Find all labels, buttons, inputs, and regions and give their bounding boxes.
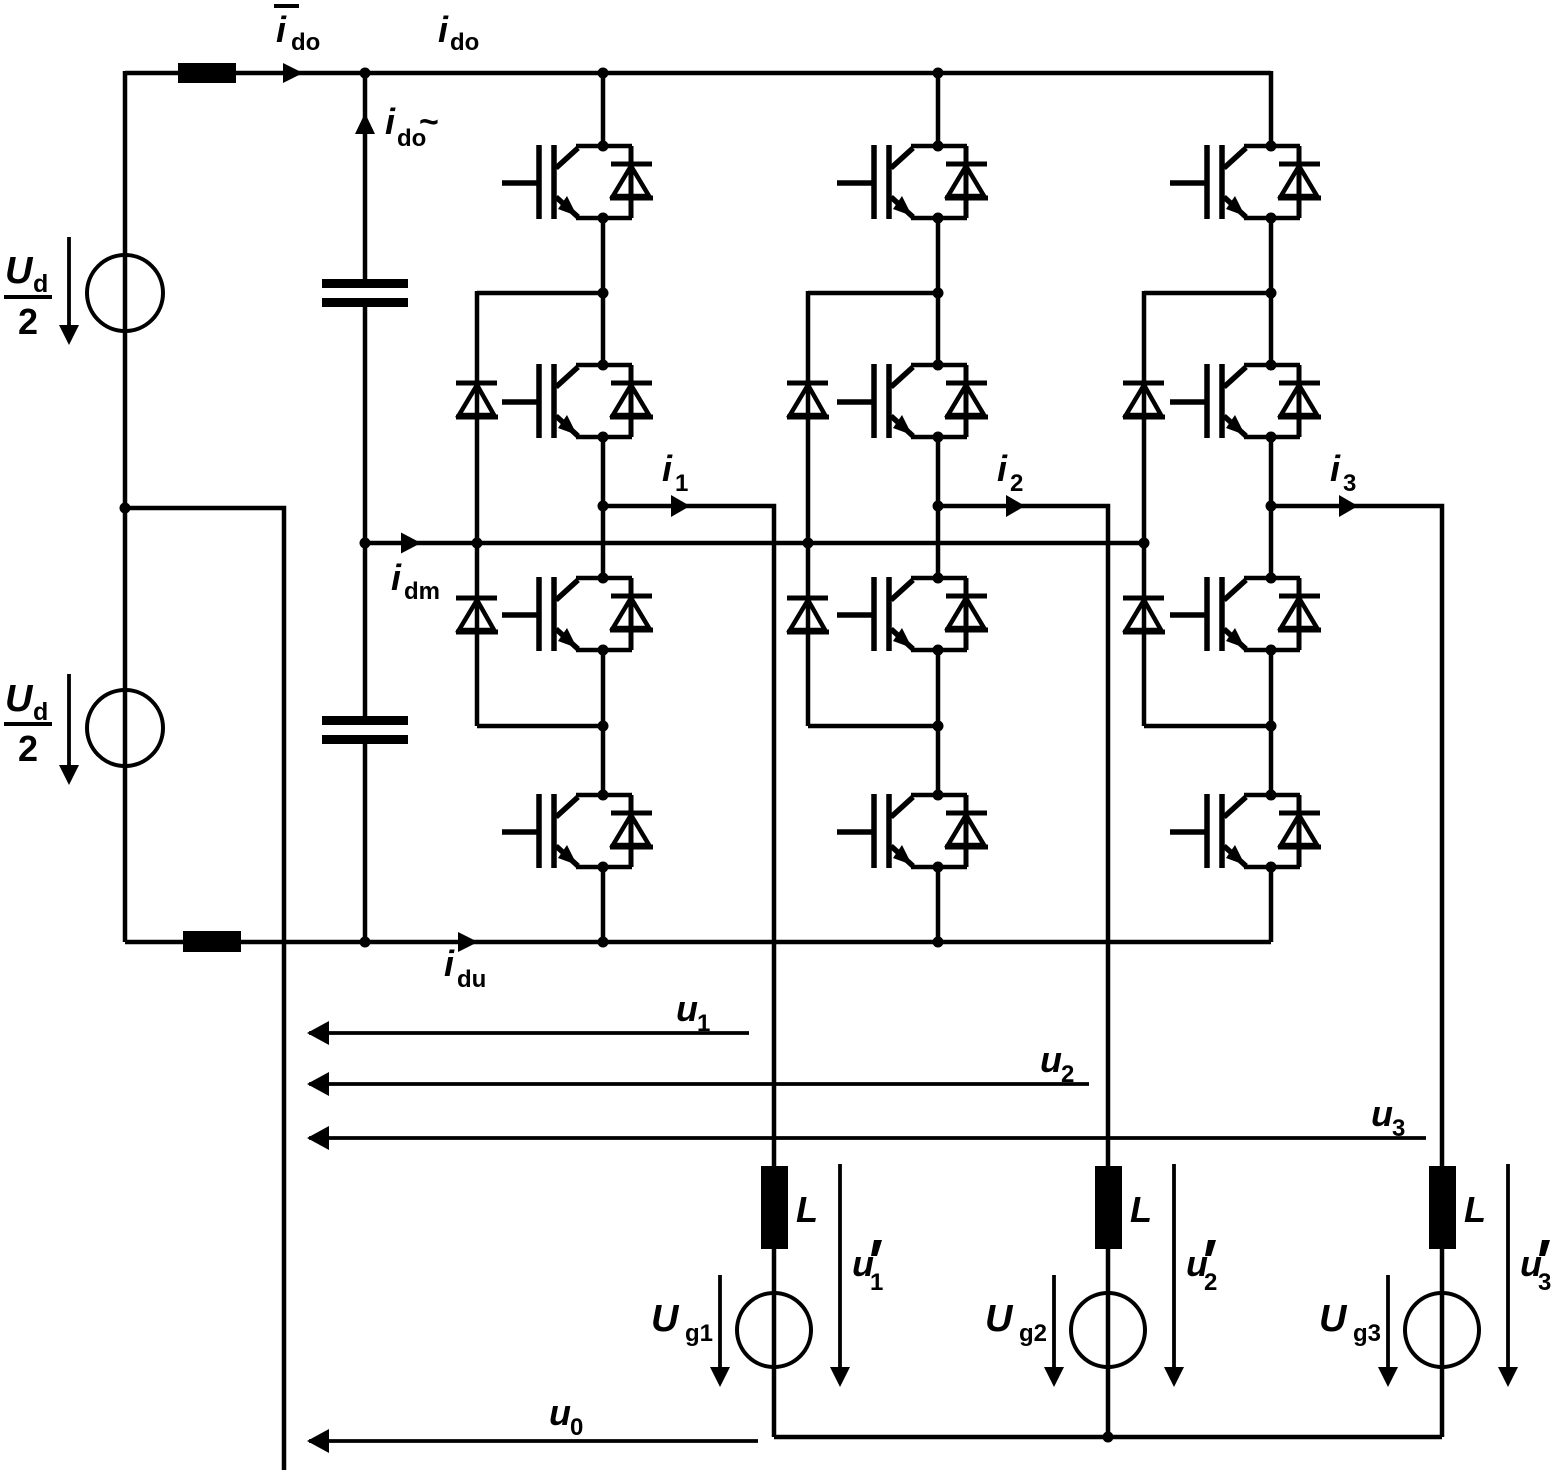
label i_du <box>444 943 486 993</box>
arrow i_3 <box>1339 495 1358 517</box>
label Ud/2 lower <box>4 678 52 769</box>
arrow U_g1 <box>710 1275 730 1387</box>
svg-text:1: 1 <box>697 1010 710 1037</box>
node T4 collector <box>598 790 609 801</box>
transistor T2 IGBT upper-middle (phase 1) <box>502 364 653 438</box>
transistor T4 IGBT bottom (phase 1) <box>502 794 653 868</box>
transistor T10 IGBT upper-middle (phase 3) <box>1170 364 1321 438</box>
arrow u_3 voltage <box>307 1126 1426 1150</box>
diode D25 clamp upper (phase 2) <box>787 383 829 417</box>
svg-text:du: du <box>457 966 486 993</box>
svg-text:g1: g1 <box>685 1320 713 1347</box>
label u_0 <box>549 1392 583 1441</box>
node clamp top junction phase 3 <box>1266 288 1277 299</box>
svg-text:U: U <box>985 1298 1014 1340</box>
voltage source U_g2 grid (phase 2) <box>1071 1293 1145 1367</box>
label L phase 2 <box>1130 1189 1152 1230</box>
svg-text:do: do <box>291 29 320 56</box>
svg-text:0: 0 <box>570 1414 583 1441</box>
svg-text:u: u <box>1371 1093 1393 1134</box>
label L phase 3 <box>1464 1189 1486 1230</box>
node clamp bottom junction phase 3 <box>1266 721 1277 732</box>
arrow i_2 <box>1006 495 1025 517</box>
wire T9 emitter to clamp junction <box>1269 218 1274 365</box>
node T4 emitter <box>598 862 609 873</box>
arrow Ud/2 upper <box>59 237 79 345</box>
arrow u'_3 <box>1498 1164 1518 1387</box>
node phase 1 at top rail <box>598 68 609 79</box>
svg-text:2: 2 <box>1061 1061 1074 1088</box>
label u'_3 <box>1520 1240 1551 1296</box>
wire T8 emitter to bottom rail <box>936 867 941 942</box>
wire clamp vertical phase 3 <box>1142 291 1147 726</box>
wire clamp bottom link phase 3 <box>1144 724 1271 729</box>
label u_2 <box>1040 1039 1074 1088</box>
label u_1 <box>676 988 710 1037</box>
svg-text:g2: g2 <box>1019 1320 1047 1347</box>
wire bottom DC rail (-) <box>125 940 1271 945</box>
svg-text:1: 1 <box>675 470 688 497</box>
label i_dm <box>391 557 440 605</box>
arrow i_du on bottom rail <box>458 932 478 952</box>
arrow u_1 voltage <box>307 1021 749 1045</box>
wire phase 2 from top rail <box>936 73 941 146</box>
svg-text:2: 2 <box>18 728 38 769</box>
node T6 collector <box>933 360 944 371</box>
node capacitor midpoint at i_dm rail <box>360 538 371 549</box>
node T10 collector <box>1266 360 1277 371</box>
wire capacitor branch upper <box>363 73 368 279</box>
node clamp at i_dm rail phase 2 <box>803 538 814 549</box>
transistor T12 IGBT bottom (phase 3) <box>1170 794 1321 868</box>
wire T6 emitter to output node <box>936 437 941 578</box>
svg-text:U: U <box>651 1298 680 1340</box>
wire output phase 1 to inductor <box>603 506 774 1166</box>
label U_g2 <box>985 1298 1047 1347</box>
wire clamp bottom link phase 2 <box>808 724 938 729</box>
node T1 collector <box>598 141 609 152</box>
wire T3 emitter to clamp bottom <box>601 650 606 795</box>
node output phase 3 <box>1266 501 1277 512</box>
label Ud/2 upper <box>4 250 52 342</box>
svg-text:i: i <box>444 943 455 984</box>
node clamp at i_dm rail phase 3 <box>1139 538 1150 549</box>
node T5 emitter <box>933 213 944 224</box>
node phase 2 at top rail <box>933 68 944 79</box>
svg-text:2: 2 <box>1010 470 1023 497</box>
wire inductor to grid source phase 3 <box>1440 1249 1445 1437</box>
wire i_dm neutral rail <box>365 541 1144 546</box>
node T3 emitter <box>598 645 609 656</box>
inductor L phase 3 <box>1429 1166 1456 1249</box>
svg-text:i: i <box>438 9 449 50</box>
transistor T3 IGBT lower-middle (phase 1) <box>502 577 653 651</box>
node T6 emitter <box>933 432 944 443</box>
label i_3 <box>1330 448 1356 497</box>
arrow i_do~ up on capacitor branch <box>355 113 375 134</box>
wire T5 emitter to clamp junction <box>936 218 941 365</box>
inductor L phase 2 <box>1095 1166 1122 1249</box>
node phase 2 at bottom rail <box>933 937 944 948</box>
wire clamp top link phase 3 <box>1144 291 1271 296</box>
svg-text:u: u <box>549 1392 571 1433</box>
svg-text:i: i <box>276 9 287 50</box>
svg-text:~: ~ <box>419 103 439 141</box>
node T10 emitter <box>1266 432 1277 443</box>
svg-text:do: do <box>450 29 479 56</box>
node T5 collector <box>933 141 944 152</box>
svg-text:i: i <box>385 101 396 142</box>
arrow i_1 <box>671 495 690 517</box>
arrow u'_1 <box>830 1164 850 1387</box>
wire phase 1 from top rail <box>601 73 606 146</box>
svg-text:L: L <box>1130 1189 1152 1230</box>
wire neutral branch from source midpoint <box>125 508 284 1470</box>
wire output phase 2 to inductor <box>938 506 1108 1166</box>
diode D16 clamp lower (phase 1) <box>456 598 498 632</box>
inductor L phase 1 <box>761 1166 788 1249</box>
voltage source Ud/2 lower <box>87 690 163 766</box>
label u'_2 <box>1186 1240 1217 1296</box>
node output phase 1 <box>598 501 609 512</box>
arrow U_g3 <box>1378 1275 1398 1387</box>
label U_g1 <box>651 1298 713 1347</box>
transistor T1 IGBT top (phase 1) <box>502 145 653 219</box>
label u_3 <box>1371 1093 1405 1142</box>
wire T1 emitter to clamp junction <box>601 218 606 365</box>
voltage source U_g1 grid (phase 1) <box>737 1293 811 1367</box>
svg-text:u: u <box>676 988 698 1029</box>
arrow i_do average on top rail <box>283 63 303 83</box>
wire T2 emitter to output node <box>601 437 606 578</box>
label i_do average (bar) <box>274 6 320 56</box>
label U_g3 <box>1319 1298 1381 1347</box>
diode D35 clamp upper (phase 3) <box>1123 383 1165 417</box>
svg-text:dm: dm <box>404 578 440 605</box>
arrow Ud/2 lower <box>59 674 79 785</box>
node source midpoint junction <box>120 503 131 514</box>
wire clamp vertical phase 2 <box>806 291 811 726</box>
svg-text:2: 2 <box>18 301 38 342</box>
svg-text:i: i <box>391 557 402 598</box>
wire inductor to grid source phase 2 <box>1106 1249 1111 1437</box>
label i_do~ <box>385 101 439 152</box>
node clamp bottom junction phase 1 <box>598 721 609 732</box>
node T11 collector <box>1266 573 1277 584</box>
svg-text:d: d <box>33 270 48 298</box>
label i_2 <box>997 448 1023 497</box>
node T8 emitter <box>933 862 944 873</box>
voltage source Ud/2 upper <box>87 255 163 331</box>
node T12 emitter <box>1266 862 1277 873</box>
diode D36 clamp lower (phase 3) <box>1123 598 1165 632</box>
node T9 emitter <box>1266 213 1277 224</box>
node clamp bottom junction phase 2 <box>933 721 944 732</box>
node clamp top junction phase 2 <box>933 288 944 299</box>
transistor T5 IGBT top (phase 2) <box>837 145 988 219</box>
wire inductor to grid source phase 1 <box>772 1249 777 1437</box>
node T1 emitter <box>598 213 609 224</box>
svg-text:2: 2 <box>1204 1269 1217 1296</box>
svg-text:L: L <box>1464 1189 1486 1230</box>
wire T12 emitter to bottom rail <box>1269 867 1274 942</box>
label i_1 <box>662 448 688 497</box>
wire T10 emitter to output node <box>1269 437 1274 578</box>
arrow u_0 voltage <box>307 1429 758 1453</box>
node clamp at i_dm rail phase 1 <box>472 538 483 549</box>
node output phase 2 <box>933 501 944 512</box>
wire clamp top link phase 1 <box>477 291 603 296</box>
node T11 emitter <box>1266 645 1277 656</box>
node T2 collector <box>598 360 609 371</box>
wire output phase 3 to inductor <box>1271 506 1442 1166</box>
svg-text:U: U <box>1319 1298 1348 1340</box>
wire clamp bottom link phase 1 <box>477 724 603 729</box>
label i_do <box>438 9 479 56</box>
arrow i_dm on neutral rail <box>401 533 421 554</box>
fuse F1 on top rail <box>178 63 236 83</box>
wire phase 3 from top rail corner <box>1269 71 1274 146</box>
svg-text:1: 1 <box>870 1269 883 1296</box>
transistor T6 IGBT upper-middle (phase 2) <box>837 364 988 438</box>
node clamp top junction phase 1 <box>598 288 609 299</box>
transistor T11 IGBT lower-middle (phase 3) <box>1170 577 1321 651</box>
svg-text:u: u <box>1040 1039 1062 1080</box>
svg-text:i: i <box>662 448 673 489</box>
diode D26 clamp lower (phase 2) <box>787 598 829 632</box>
wire capacitor branch middle <box>363 307 368 716</box>
wire T7 emitter to clamp bottom <box>936 650 941 795</box>
transistor T7 IGBT lower-middle (phase 2) <box>837 577 988 651</box>
arrow u_2 voltage <box>307 1072 1089 1096</box>
node capacitor branch at bottom rail <box>360 937 371 948</box>
svg-text:3: 3 <box>1392 1115 1405 1142</box>
node T12 collector <box>1266 790 1277 801</box>
wire grid star-point rail <box>774 1435 1442 1440</box>
node T3 collector <box>598 573 609 584</box>
svg-text:U: U <box>5 250 34 292</box>
voltage source U_g3 grid (phase 3) <box>1405 1293 1479 1367</box>
arrow u'_2 <box>1164 1164 1184 1387</box>
svg-text:U: U <box>5 678 34 720</box>
wire capacitor branch lower <box>363 744 368 942</box>
arrow U_g2 <box>1044 1275 1064 1387</box>
node T2 emitter <box>598 432 609 443</box>
svg-text:g3: g3 <box>1353 1320 1381 1347</box>
wire top DC rail (+) <box>125 71 1271 76</box>
node T7 collector <box>933 573 944 584</box>
transistor T8 IGBT bottom (phase 2) <box>837 794 988 868</box>
capacitor C1 upper <box>322 279 408 307</box>
node grid star phase 2 <box>1103 1432 1114 1443</box>
svg-text:d: d <box>33 698 48 726</box>
svg-text:i: i <box>997 448 1008 489</box>
wire T4 emitter to bottom rail <box>601 867 606 942</box>
wire clamp vertical phase 1 <box>475 291 480 726</box>
node T7 emitter <box>933 645 944 656</box>
node phase 1 at bottom rail <box>598 937 609 948</box>
svg-text:3: 3 <box>1538 1269 1551 1296</box>
fuse F2 on bottom rail <box>183 931 241 952</box>
wire T11 emitter to clamp bottom <box>1269 650 1274 795</box>
wire clamp top link phase 2 <box>808 291 938 296</box>
node T8 collector <box>933 790 944 801</box>
transistor T9 IGBT top (phase 3) <box>1170 145 1321 219</box>
svg-text:i: i <box>1330 448 1341 489</box>
node capacitor branch at top rail <box>360 68 371 79</box>
svg-text:L: L <box>796 1189 818 1230</box>
label L phase 1 <box>796 1189 818 1230</box>
capacitor C2 lower <box>322 716 408 744</box>
svg-text:3: 3 <box>1343 470 1356 497</box>
diode D15 clamp upper (phase 1) <box>456 383 498 417</box>
label u'_1 <box>852 1240 883 1296</box>
wire left rail <box>123 71 128 942</box>
node T9 collector <box>1266 141 1277 152</box>
